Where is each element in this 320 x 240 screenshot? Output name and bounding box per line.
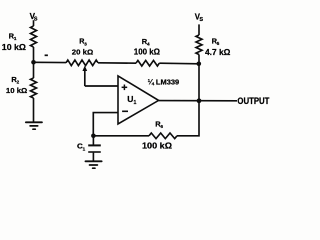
label R5 [212,37,220,47]
wire op-amp output to OUTPUT [159,100,237,102]
label R4 [142,37,150,47]
label R1 [9,32,17,42]
wire C1 node to R6 [93,135,149,137]
svg-text:¼ LM339: ¼ LM339 [148,78,180,87]
svg-text:3: 3 [84,41,87,46]
minus polarity dash [45,54,48,56]
wire R4 to output rail [159,62,199,65]
svg-text:S: S [34,17,38,23]
svg-text:10 kΩ: 10 kΩ [6,86,27,95]
wire R2 bottom to ground [33,98,35,122]
power Vs (left) [30,12,38,23]
label U1 [127,95,136,106]
svg-text:1: 1 [83,146,86,151]
capacitor C1 [77,136,101,161]
ground (left) [26,122,42,129]
pin marker + (non-inverting input) [122,85,128,91]
C1 bottom plate [88,151,101,153]
wire C1 to ground [92,153,94,161]
svg-text:100 kΩ: 100 kΩ [142,142,173,151]
op-amp U1 (1/4 LM339 comparator) [118,76,159,124]
svg-text:1: 1 [134,100,137,106]
wire output rail (R5 bottom through R4 node to output node) [198,55,200,101]
wire Vs-right lead to R5 [198,24,200,35]
wire R3 to R4 [98,62,136,64]
svg-text:1: 1 [14,36,17,41]
potentiometer R3 [66,37,98,86]
wire R3 wiper lead [84,69,86,87]
C1 top plate [88,144,101,146]
label R2 [11,75,19,85]
resistor R6 [142,120,177,151]
svg-text:10 kΩ: 10 kΩ [2,43,27,52]
wire R3 wiper to + input [85,85,118,87]
node A (junction dot, R1/R2 divider) [31,60,36,65]
node C1/R6 junction [91,134,96,139]
svg-text:5: 5 [217,41,220,46]
wire R6 to output rail corner [177,101,199,136]
node output junction [197,98,202,103]
wire Vs-left lead to R1 [33,20,35,26]
node R4/R5/rail junction [197,62,202,67]
svg-text:4.7 kΩ: 4.7 kΩ [205,48,231,57]
ground (under C1) [86,161,102,168]
label R6 [155,120,163,130]
wire - input to C1 node [93,113,118,136]
power Vs (right) [195,13,204,24]
resistor R4 [134,37,161,66]
svg-text:100 kΩ: 100 kΩ [134,48,161,57]
label C1 [77,142,86,152]
svg-text:OUTPUT: OUTPUT [237,96,269,106]
svg-text:6: 6 [161,124,164,129]
svg-text:4: 4 [147,42,150,47]
wire R1 bottom to node A [33,47,35,63]
resistor R2 [6,75,37,98]
wire node A to R3 [34,61,67,63]
resistor R5 [196,35,231,57]
svg-text:2: 2 [17,79,20,84]
label R3 [79,37,87,47]
svg-text:20 kΩ: 20 kΩ [72,47,93,56]
pin marker - (inverting input) [122,110,128,112]
wiper arrow of R3 [82,66,87,71]
svg-text:S: S [199,17,203,23]
resistor R1 [2,26,37,52]
wire node A down to R2 [33,62,35,78]
